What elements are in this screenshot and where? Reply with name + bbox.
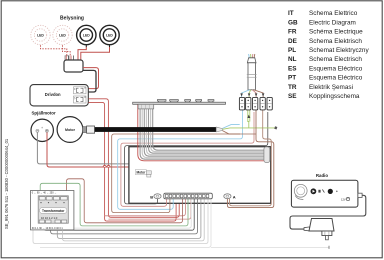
damper motor terminals [36, 127, 49, 133]
radio speaker [294, 184, 307, 197]
wire stub LED2 [109, 45, 111, 48]
svg-text:Esquema Eléctrico: Esquema Eléctrico [309, 65, 363, 72]
control box [129, 147, 271, 204]
motor cable gland [83, 127, 87, 133]
svg-text:LED: LED [83, 34, 90, 38]
motor cable thick [95, 127, 217, 132]
svg-text:NL: NL [288, 56, 297, 63]
wire light blue loop strip to switch 1 right [118, 110, 243, 209]
LED lamp 2 [100, 25, 119, 44]
wire black junction box to driver [83, 70, 96, 92]
radio output jack [358, 193, 362, 197]
transformer mounting plate dashed [31, 191, 74, 230]
wire gray strip to transformer bottom 3 [57, 199, 201, 239]
microswitch 3 [253, 97, 258, 110]
wire dashed from optional lamp 1 to junction box [41, 45, 67, 56]
svg-text:Motor: Motor [65, 128, 76, 132]
microswitch 5 [267, 97, 272, 110]
svg-text:Drivdon: Drivdon [45, 92, 61, 97]
motor cable ferrule [87, 126, 95, 133]
wire red loop strip left 2 [108, 199, 190, 219]
wire red transformer primary loop [67, 179, 183, 223]
svg-text:Electric Diagram: Electric Diagram [309, 19, 356, 26]
wire blue loop strip to switch 1 left [112, 134, 256, 213]
pcb component 4 [196, 100, 202, 103]
radio play button [311, 188, 317, 194]
svg-text:Spjällmotor: Spjällmotor [32, 110, 56, 115]
wire pale strip to transformer bottom [55, 199, 191, 228]
svg-text:Belysning: Belysning [60, 16, 84, 22]
wire gray loop strip to switch 3 [121, 112, 254, 206]
legend translations [309, 10, 369, 100]
svg-text:A: A [233, 194, 236, 199]
svg-text:Esquema Eléctrico: Esquema Eléctrico [309, 75, 363, 82]
crossover hops on red wire [103, 166, 106, 168]
wire stub LED1 [85, 45, 87, 48]
wire green from motor cable to end terminal [223, 128, 276, 129]
wire red LED1 to junction box [78, 47, 86, 61]
junction box [64, 60, 83, 72]
motor connector label [135, 170, 146, 175]
pcb board bar [133, 102, 226, 104]
svg-text:Elektrik Şemasi: Elektrik Şemasi [309, 84, 353, 91]
wire red LED2 to junction box [81, 47, 110, 61]
svg-text:IT: IT [288, 10, 294, 17]
svg-text:0 ← 90 → 40 ← 250 →: 0 ← 90 → 40 ← 250 → [32, 191, 57, 194]
svg-text:TR: TR [288, 84, 297, 91]
svg-text:PL: PL [288, 47, 296, 54]
wire green transformer loop [40, 183, 188, 226]
svg-text:Schéma Electrique: Schéma Electrique [309, 29, 363, 36]
junction box terminal pins [65, 56, 73, 60]
power adapter prong block [322, 231, 332, 236]
connector strip on control box [164, 193, 213, 199]
wire red loop strip left [105, 199, 186, 216]
terminal A [224, 194, 231, 199]
ribbon cable bundle from pcb bending right [140, 109, 265, 159]
green wire end terminal [274, 126, 277, 129]
power adapter prong [326, 236, 329, 240]
svg-text:FR: FR [288, 29, 297, 36]
svg-text:SE: SE [288, 93, 297, 100]
svg-text:LED: LED [59, 34, 66, 38]
svg-text:ES: ES [288, 65, 297, 72]
svg-text:B: B [150, 194, 153, 199]
svg-text:Schema Electrisch: Schema Electrisch [309, 56, 362, 63]
radio cable to adapter [290, 195, 366, 229]
pcb component 3 [185, 100, 191, 103]
mains cable connector housing [247, 58, 256, 63]
wire gray damper motor to motor connector [37, 132, 149, 170]
svg-text:10 10 1.2 1.0: 10 10 1.2 1.0 [41, 216, 58, 220]
mains cable with break [248, 63, 255, 90]
fan motor circle [57, 117, 83, 143]
wire light blue from motor cable to switch 1 [223, 125, 240, 129]
optional LED lamp 1 (dashed) [31, 25, 50, 44]
connection arrows above switches [240, 93, 264, 96]
wire faint long bottom run [40, 199, 211, 248]
wire black strip to transformer bottom [44, 199, 194, 231]
pcb component 1 [157, 100, 166, 103]
transformer top terminals [39, 197, 67, 200]
wire light gray strip to transformer bottom 4 [63, 199, 205, 241]
wire brown switch 3 to terminal A [227, 110, 273, 208]
wire dashed from optional lamp 2 to junction box [63, 45, 71, 56]
transformer body [38, 196, 68, 223]
damper motor circle [31, 119, 53, 141]
wire brown B terminal loop [125, 112, 268, 204]
optional LED lamp 2 (dashed) [53, 25, 72, 44]
microswitch 4 [260, 97, 265, 110]
wire red damper motor to motor connector [47, 132, 148, 170]
svg-text:Radio: Radio [316, 173, 329, 178]
svg-text:Schemat Elektryczny: Schemat Elektryczny [309, 47, 369, 54]
svg-text:Kopplingsschema: Kopplingsschema [309, 93, 360, 100]
svg-text:LED: LED [37, 34, 44, 38]
radio middle controls [318, 190, 320, 193]
wire red driver lower to bottom bus [89, 99, 180, 218]
wire dark gray strip to transformer bottom 2 [51, 199, 198, 234]
motor cable end taper [216, 127, 222, 132]
transformer label [40, 208, 67, 214]
power adapter cable tip [304, 227, 310, 231]
svg-text:Motor: Motor [137, 171, 147, 175]
LED lamp 1 [77, 25, 96, 44]
wire pale bottom run [33, 199, 208, 244]
power adapter body [309, 219, 334, 232]
pcb red wire down ribbon and under bundle [138, 105, 266, 161]
svg-text:SE_991 0676 511 - 180830 -: SE_991 0676 511 - 180830 - C00000000644_… [4, 138, 9, 229]
svg-text:30 1 1 30 → 10 30 1 0 40 0 1: 30 1 1 30 → 10 30 1 0 40 0 1 [32, 227, 64, 230]
microswitch 2 [246, 97, 251, 110]
svg-text:Schema Elettrico: Schema Elettrico [309, 10, 358, 17]
svg-text:12V: 12V [341, 198, 346, 202]
svg-text:GB: GB [288, 19, 298, 26]
driver output connector lower [74, 96, 87, 103]
wire green switch 2 to green run with junction arrow [248, 110, 249, 128]
svg-text:LED: LED [106, 34, 113, 38]
motor connector plug [146, 171, 151, 175]
pcb component 2 [170, 100, 179, 103]
driver box Drivdon [30, 85, 88, 106]
mains cable connector stubs [249, 54, 255, 58]
svg-text:DE: DE [288, 38, 298, 45]
legend language codes [288, 10, 298, 100]
wire red driver lower 2 to bottom bus [89, 102, 177, 221]
wire brown switch 4 to terminal A [230, 110, 272, 206]
radio unit [291, 180, 358, 207]
driver output connector upper [74, 87, 87, 94]
wire red junction box to driver [83, 68, 99, 89]
microswitch 1 [239, 97, 244, 110]
wire brown from motor cable joining switch 3 wire [223, 131, 241, 134]
svg-text:Transformator: Transformator [42, 209, 65, 213]
bundle end cap [264, 147, 270, 163]
svg-text:Schema Elektrisch: Schema Elektrisch [309, 38, 362, 45]
svg-text:PT: PT [288, 75, 296, 82]
pcb component 5 [208, 100, 214, 103]
wires fanning from mains cable to switches [242, 90, 264, 98]
pcb ribbon connector [138, 104, 154, 109]
